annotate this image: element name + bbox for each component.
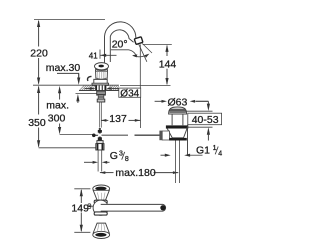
max.30 lower arrow pointing up to washer line <box>77 101 79 104</box>
pop-up rod cross linkage <box>92 128 160 141</box>
svg-text:1: 1 <box>213 145 217 152</box>
spout tube and arc (outer) <box>105 22 136 63</box>
outlet bottom extension line (right) <box>143 43 172 45</box>
deck top line <box>79 84 119 86</box>
dimension max.300 vertical line <box>59 93 61 100</box>
svg-text:40-53: 40-53 <box>192 114 219 126</box>
dimension 40-53 <box>196 100 208 102</box>
plan: top handle cap <box>93 185 110 192</box>
threaded stud below deck <box>97 91 106 103</box>
label G1 1/4 <box>196 145 222 158</box>
plan: bottom handle base ring <box>94 212 107 215</box>
dimension Ø34 arrows at deck <box>85 88 91 90</box>
projection vertical line from outlet to deck <box>139 44 141 88</box>
dimension 350 vertical line <box>38 87 40 115</box>
svg-text:149: 149 <box>71 203 89 215</box>
svg-text:300: 300 <box>48 113 66 125</box>
pop-up rod hook at rear of body <box>88 76 92 81</box>
spout top extension line <box>34 19 105 21</box>
dimension 144 vertical line <box>166 46 168 56</box>
svg-text:144: 144 <box>159 59 177 71</box>
waste body taper <box>167 129 187 138</box>
label G 3/8 <box>110 150 129 163</box>
svg-text:4: 4 <box>218 150 222 157</box>
plan: spout tube dark end cap <box>160 205 165 210</box>
svg-text:20°: 20° <box>112 39 128 51</box>
plan: bottom handle cap <box>93 231 110 238</box>
svg-text:Ø34: Ø34 <box>120 88 139 99</box>
spout tube and arc (inner) <box>110 30 133 62</box>
svg-text:41: 41 <box>89 52 98 61</box>
deck bottom line <box>79 90 119 92</box>
svg-text:3: 3 <box>119 150 123 157</box>
svg-text:8: 8 <box>125 156 129 163</box>
deck slab with hatching (right of shank) <box>107 85 119 90</box>
faucet handle cap (ellipse) <box>95 63 109 70</box>
faucet handle skirt <box>96 70 108 79</box>
waste bottom nut <box>169 138 187 141</box>
svg-text:350: 350 <box>28 117 46 129</box>
pop-up rod / supply pipe (upper) <box>99 102 101 128</box>
G1 1/4 leader: box stem, underline and thread arrows <box>187 125 189 155</box>
spout outlet (mousseur block) <box>134 37 143 45</box>
plan: central hub <box>93 200 108 215</box>
svg-text:max.180: max.180 <box>115 167 155 179</box>
second slanted line from outlet corner <box>142 43 152 53</box>
plan: spout tube <box>101 204 166 211</box>
dimension max.180 <box>100 172 114 174</box>
deck top extension line (right) <box>120 85 171 87</box>
shank through deck (threaded cross-section) <box>95 85 106 90</box>
slanted swivel line 20deg <box>139 44 147 61</box>
supply pipe G3/8 <box>97 150 99 172</box>
deck slab with hatching (left of shank) <box>80 85 96 90</box>
max.300 bottom extension line to supply fitting <box>60 134 93 136</box>
waste neck <box>172 114 183 125</box>
svg-text:max.: max. <box>46 99 69 111</box>
G3/8 diameter arrows <box>84 161 93 163</box>
Ø63 dimension <box>155 100 162 102</box>
label Ø34 in box <box>119 88 141 97</box>
svg-text:G1: G1 <box>196 145 210 157</box>
max.30 lower reference line (washer under deck) <box>76 93 98 95</box>
149 bottom extension line <box>74 231 90 233</box>
faucet body: base plate <box>92 83 109 85</box>
supply compression fitting <box>96 141 104 150</box>
20deg leader underline curving up to spout <box>111 50 136 55</box>
waste flange (dark band) <box>166 125 188 128</box>
svg-text:max.30: max.30 <box>46 62 81 74</box>
149 top extension line <box>74 188 90 190</box>
waste plug dome <box>169 107 187 114</box>
plan: top handle skirt <box>93 190 109 200</box>
handle cap dark center <box>98 65 104 68</box>
faucet body: lower block <box>94 79 107 83</box>
dimension 220 vertical line <box>38 21 40 47</box>
waste tailpipe G1 1/4 <box>175 141 177 184</box>
swivel arc with arrowheads <box>134 55 148 57</box>
dimension 137 <box>101 119 108 121</box>
waste side spigot <box>162 131 169 140</box>
max.30 leader: underline and down arrow to deck top <box>57 73 79 78</box>
dimension 149 vertical line <box>80 190 82 203</box>
svg-text:220: 220 <box>30 47 48 59</box>
svg-text:137: 137 <box>109 113 127 125</box>
350 bottom extension line <box>39 147 96 149</box>
svg-text:G: G <box>110 150 118 162</box>
deck top extension line (left) <box>33 84 79 86</box>
label 40-53 in box <box>188 113 222 125</box>
plan: pop-up knob at left <box>91 205 93 207</box>
plan: top handle base ring <box>94 200 107 203</box>
plan: bottom handle skirt <box>93 223 109 233</box>
